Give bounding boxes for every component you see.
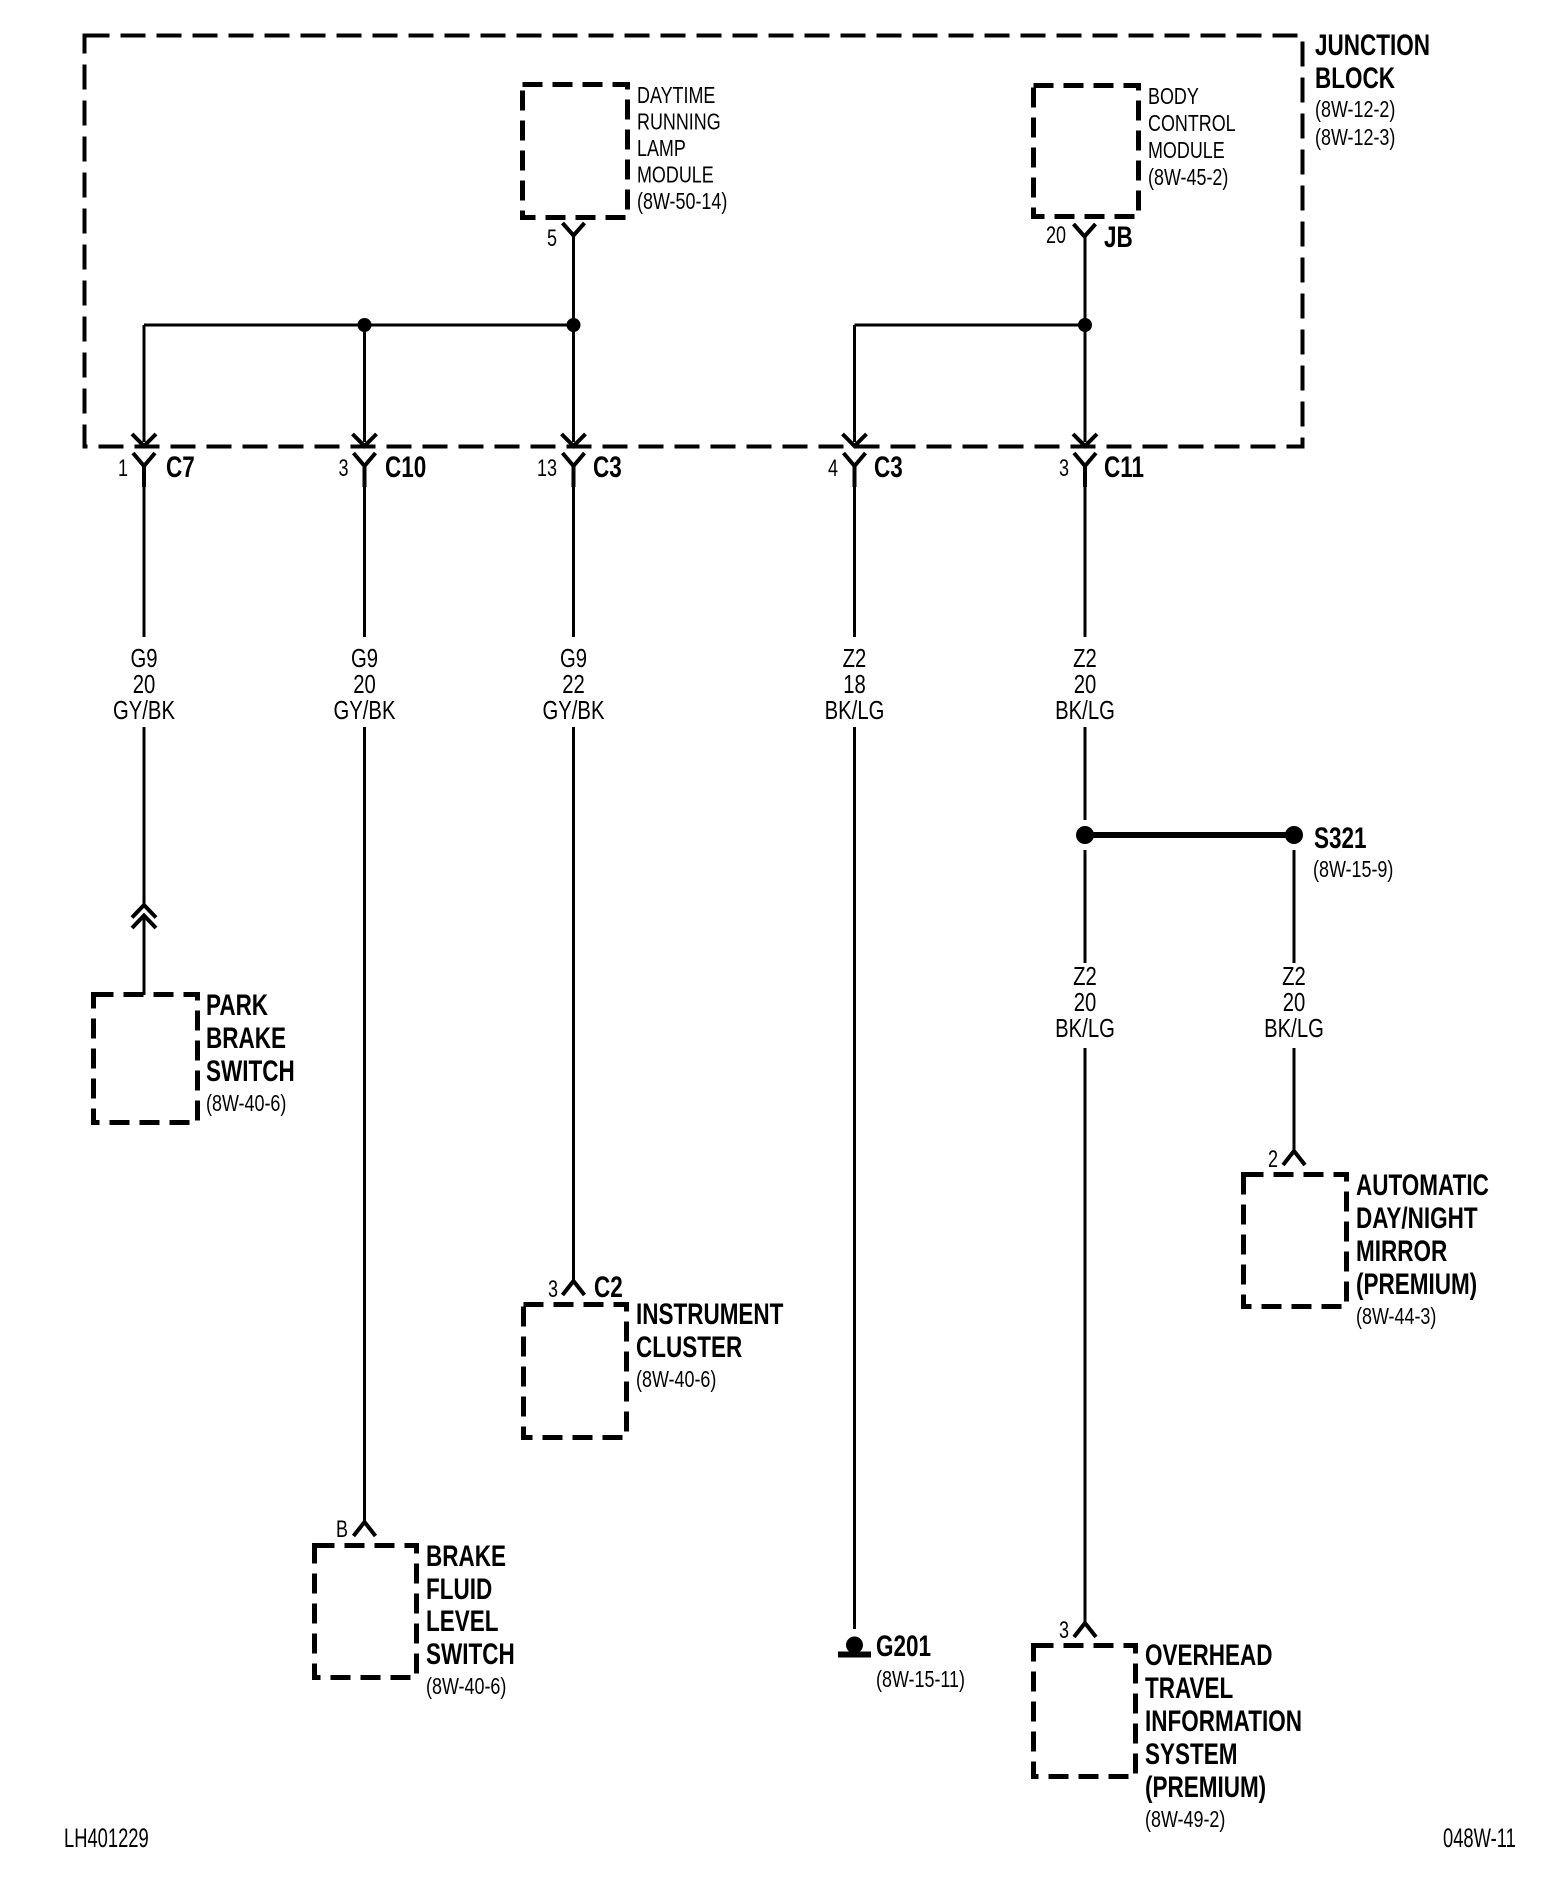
svg-text:G201: G201 [876, 1629, 931, 1663]
wire branch down to mirror [1293, 1048, 1296, 1151]
svg-text:20: 20 [353, 670, 376, 699]
svg-text:LH401229: LH401229 [64, 1822, 149, 1852]
connector B at brake fluid level switch [336, 1517, 376, 1543]
wire W5 below exit [1084, 487, 1087, 637]
arrow into C3 exit (4) [843, 434, 867, 446]
svg-text:MODULE: MODULE [1148, 138, 1225, 164]
wire W4 below exit [853, 487, 856, 637]
wire: W4 vertical inside block [853, 325, 856, 442]
wire label G9 20 GY/BK (W2) [334, 644, 396, 725]
wire W5 below splice [1084, 850, 1087, 963]
wire label Z2 20 BK/LG (branch) [1264, 962, 1324, 1043]
wire W4 down to ground G201 [853, 727, 856, 1629]
junction dot at bus/W5 [1078, 318, 1092, 332]
arrow into C10 exit [353, 434, 377, 446]
connector pin 2 at mirror [1268, 1147, 1305, 1173]
svg-text:5: 5 [547, 226, 557, 252]
svg-text:C11: C11 [1104, 450, 1144, 484]
wire W3 down to instrument cluster [572, 727, 575, 1281]
wire W2 below exit [363, 487, 366, 637]
svg-text:INFORMATION: INFORMATION [1145, 1704, 1302, 1738]
park brake switch box [94, 995, 198, 1123]
svg-text:G9: G9 [560, 644, 587, 673]
svg-text:(8W-40-6): (8W-40-6) [206, 1091, 286, 1117]
svg-text:Z2: Z2 [1073, 962, 1097, 991]
svg-text:18: 18 [843, 670, 866, 699]
svg-text:(PREMIUM): (PREMIUM) [1356, 1267, 1477, 1301]
svg-text:(8W-49-2): (8W-49-2) [1145, 1807, 1225, 1833]
svg-text:13: 13 [537, 456, 557, 482]
svg-text:JUNCTION: JUNCTION [1315, 28, 1430, 62]
wire W2 down to brake fluid level switch [363, 727, 366, 1522]
svg-text:(8W-12-3): (8W-12-3) [1315, 125, 1395, 151]
wire label G9 22 GY/BK (W3) [543, 644, 605, 725]
wire: W1 vertical inside block [143, 325, 146, 442]
svg-text:DAYTIME: DAYTIME [637, 83, 715, 109]
svg-text:Z2: Z2 [1282, 962, 1306, 991]
svg-text:3: 3 [1059, 456, 1069, 482]
svg-text:GY/BK: GY/BK [543, 696, 605, 725]
svg-text:PARK: PARK [206, 988, 268, 1022]
svg-text:2: 2 [1268, 1147, 1278, 1173]
svg-text:CONTROL: CONTROL [1148, 111, 1236, 137]
svg-text:BK/LG: BK/LG [1264, 1014, 1324, 1043]
svg-text:B: B [336, 1517, 348, 1543]
svg-text:(8W-45-2): (8W-45-2) [1148, 165, 1228, 191]
connector C11 (pin 3) [1059, 450, 1144, 487]
svg-text:BK/LG: BK/LG [1055, 1014, 1115, 1043]
svg-text:C3: C3 [874, 450, 903, 484]
wire label Z2 18 BK/LG (W4) [825, 644, 885, 725]
DRL module pin 5 connector [547, 223, 585, 252]
svg-text:Z2: Z2 [843, 644, 867, 673]
body control module label [1148, 84, 1236, 191]
junction dot at bus/W2 [358, 318, 372, 332]
svg-text:C10: C10 [385, 450, 426, 484]
svg-text:(PREMIUM): (PREMIUM) [1145, 1770, 1266, 1804]
wire: right bus horizontal [855, 324, 1086, 327]
svg-text:(8W-12-2): (8W-12-2) [1315, 97, 1395, 123]
svg-text:INSTRUMENT: INSTRUMENT [636, 1297, 783, 1331]
connector C3 (pin 4) [828, 450, 903, 487]
svg-text:BK/LG: BK/LG [825, 696, 885, 725]
junction block boundary (dashed) [85, 36, 1303, 447]
splice S321 label [1313, 821, 1393, 883]
arrow into C11 exit [1073, 434, 1097, 446]
svg-text:SWITCH: SWITCH [206, 1054, 295, 1088]
svg-text:BRAKE: BRAKE [206, 1021, 286, 1055]
svg-text:G9: G9 [351, 644, 378, 673]
svg-text:20: 20 [1074, 670, 1097, 699]
svg-text:048W-11: 048W-11 [1443, 1822, 1516, 1852]
wire branch from S321 down [1293, 850, 1296, 963]
wire label Z2 20 BK/LG (W5) [1055, 644, 1115, 725]
connector pin 3 at overhead travel information system [1059, 1618, 1096, 1644]
connector C3 (pin 13) [537, 450, 622, 487]
wire W3 below exit [572, 487, 575, 637]
svg-text:AUTOMATIC: AUTOMATIC [1356, 1168, 1489, 1202]
svg-text:(8W-15-9): (8W-15-9) [1313, 857, 1393, 883]
wire label G9 20 GY/BK (W1) [113, 644, 175, 725]
wire: left bus horizontal [144, 324, 574, 327]
arrow into C7 exit [132, 434, 156, 446]
BCM pin 20 connector JB [1046, 220, 1133, 254]
svg-text:BK/LG: BK/LG [1055, 696, 1115, 725]
svg-text:C3: C3 [593, 450, 622, 484]
svg-text:(8W-40-6): (8W-40-6) [636, 1367, 716, 1393]
instrument cluster label [636, 1297, 783, 1393]
svg-text:20: 20 [133, 670, 156, 699]
svg-text:LAMP: LAMP [637, 136, 686, 162]
ground G201 symbol [838, 1637, 871, 1655]
svg-text:OVERHEAD: OVERHEAD [1145, 1638, 1272, 1672]
svg-text:1: 1 [118, 456, 128, 482]
svg-text:3: 3 [548, 1277, 558, 1303]
svg-text:SYSTEM: SYSTEM [1145, 1737, 1237, 1771]
wire: DRL pin 5 down to C3 exit [572, 235, 575, 442]
wire W1 below exit [143, 487, 146, 637]
svg-text:C7: C7 [166, 450, 195, 484]
splice dot S321 [1285, 826, 1303, 844]
overhead travel information system box [1034, 1646, 1136, 1777]
ground G201 label [876, 1629, 965, 1693]
svg-text:4: 4 [828, 456, 838, 482]
wire W1 to park brake switch [143, 918, 146, 995]
svg-text:20: 20 [1046, 223, 1066, 249]
svg-text:20: 20 [1074, 988, 1097, 1017]
svg-text:G9: G9 [130, 644, 157, 673]
connector C10 (pin 3) [338, 450, 426, 487]
svg-text:TRAVEL: TRAVEL [1145, 1671, 1233, 1705]
svg-text:CLUSTER: CLUSTER [636, 1330, 742, 1364]
svg-text:(8W-44-3): (8W-44-3) [1356, 1304, 1436, 1330]
svg-text:RUNNING: RUNNING [637, 109, 721, 135]
svg-text:GY/BK: GY/BK [334, 696, 396, 725]
wire W5 down to overhead travel information system [1084, 1048, 1087, 1623]
instrument cluster box [524, 1305, 627, 1438]
splice dot on W5 [1076, 826, 1094, 844]
wire: BCM pin 20 down to C11 exit [1084, 236, 1087, 442]
svg-text:MIRROR: MIRROR [1356, 1234, 1447, 1268]
svg-text:Z2: Z2 [1073, 644, 1097, 673]
svg-text:(8W-40-6): (8W-40-6) [426, 1674, 506, 1700]
svg-text:SWITCH: SWITCH [426, 1637, 515, 1671]
inline connector chevrons on W1 [132, 905, 156, 918]
connector C2 (pin 3) at instrument cluster [548, 1270, 623, 1304]
junction dot at bus/W3 [567, 318, 581, 332]
automatic day/night mirror label [1356, 1168, 1489, 1330]
svg-text:LEVEL: LEVEL [426, 1604, 498, 1638]
svg-text:JB: JB [1104, 220, 1133, 254]
overhead travel information system label [1145, 1638, 1302, 1833]
daytime running lamp module label [637, 83, 727, 215]
automatic day/night mirror box [1244, 1175, 1347, 1307]
svg-text:GY/BK: GY/BK [113, 696, 175, 725]
brake fluid level switch box [315, 1546, 417, 1678]
brake fluid level switch label [426, 1539, 515, 1700]
wire: W2 vertical inside block [363, 325, 366, 442]
svg-text:22: 22 [562, 670, 585, 699]
body control module box [1034, 86, 1139, 217]
daytime running lamp module box [523, 85, 628, 218]
connector C7 (pin 1) [118, 450, 195, 487]
svg-text:BLOCK: BLOCK [1315, 61, 1395, 95]
park brake switch label [206, 988, 295, 1117]
wire label Z2 20 BK/LG (W5 lower) [1055, 962, 1115, 1043]
svg-text:BODY: BODY [1148, 84, 1199, 110]
svg-text:20: 20 [1283, 988, 1306, 1017]
splice S321 horizontal link [1085, 832, 1294, 838]
svg-text:(8W-15-11): (8W-15-11) [876, 1667, 965, 1693]
junction block label [1315, 28, 1430, 151]
svg-text:FLUID: FLUID [426, 1572, 492, 1606]
svg-text:DAY/NIGHT: DAY/NIGHT [1356, 1201, 1478, 1235]
svg-text:3: 3 [1059, 1618, 1069, 1644]
svg-text:MODULE: MODULE [637, 162, 714, 188]
svg-text:3: 3 [338, 456, 348, 482]
svg-text:S321: S321 [1314, 821, 1367, 855]
svg-text:(8W-50-14): (8W-50-14) [637, 189, 727, 215]
svg-text:BRAKE: BRAKE [426, 1539, 506, 1573]
svg-text:C2: C2 [594, 1270, 623, 1304]
wire W5 down to splice S321 [1084, 727, 1087, 820]
arrow into C3 exit (13) [562, 434, 586, 446]
wire W1 to inline connector [143, 727, 146, 904]
